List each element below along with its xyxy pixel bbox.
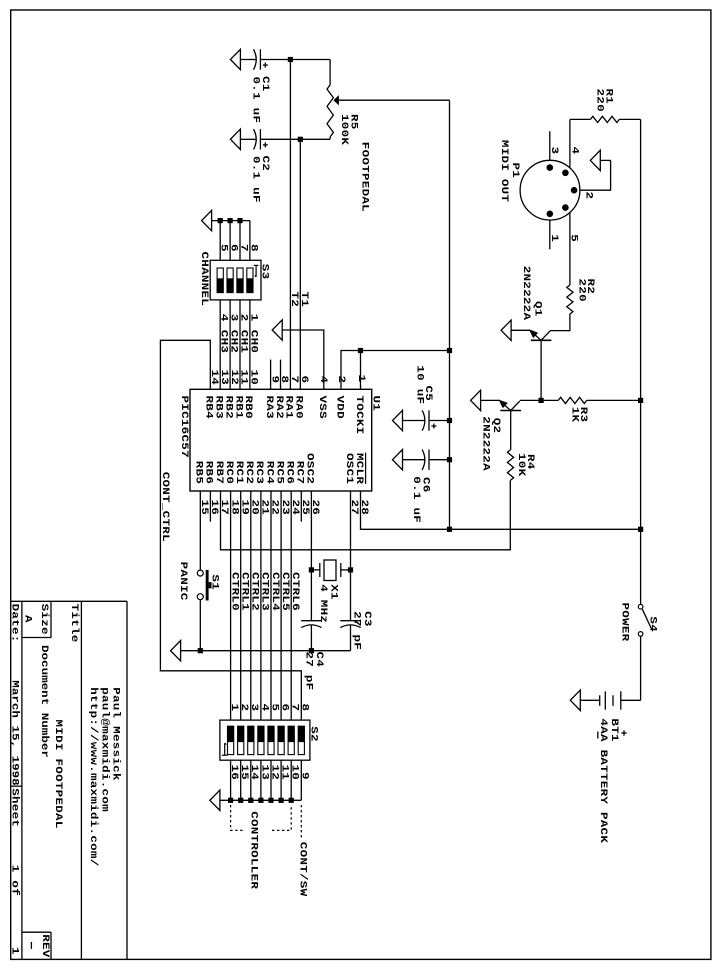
node C4 ground junction bbox=[309, 648, 314, 653]
svg-text:100K: 100K bbox=[338, 114, 350, 145]
wire CONTROLLER bracket (dashed) bbox=[231, 805, 292, 830]
wire R2 to Q1 collector bbox=[550, 314, 570, 331]
wire U1 pin 9 stub bbox=[270, 360, 272, 390]
node X1 left junction bbox=[309, 567, 314, 572]
label S2 bbox=[308, 726, 320, 742]
label CONTROLLER bbox=[248, 811, 260, 889]
svg-text:POWER: POWER bbox=[619, 603, 631, 642]
wire S4 to battery bbox=[621, 636, 641, 700]
svg-text:Date:: Date: bbox=[9, 604, 21, 643]
connector P1 MIDI OUT (DIN-5) bbox=[520, 160, 580, 220]
svg-text:S1: S1 bbox=[209, 574, 221, 590]
wire S2 bottom pins bbox=[231, 760, 302, 800]
node MCLR/right rail junction bbox=[638, 527, 643, 532]
svg-text:10: 10 bbox=[248, 370, 260, 386]
svg-text:4AA BATTERY PACK: 4AA BATTERY PACK bbox=[598, 718, 610, 843]
svg-text:REV: REV bbox=[39, 934, 51, 957]
title block text: A bbox=[22, 615, 34, 623]
svg-text:Q2: Q2 bbox=[490, 418, 502, 434]
wire RB7 net (U1 pin17 to R4) bbox=[221, 480, 511, 550]
svg-text:RB0: RB0 bbox=[243, 396, 255, 419]
label U1 bbox=[370, 396, 382, 412]
svg-text:PIC16C57: PIC16C57 bbox=[178, 396, 190, 458]
node T1 label bbox=[299, 292, 311, 308]
svg-text:5: 5 bbox=[568, 234, 580, 242]
svg-text:2N2222A: 2N2222A bbox=[520, 266, 532, 321]
wire S1 to ground rail bbox=[199, 600, 201, 651]
svg-text:Q1: Q1 bbox=[532, 301, 544, 317]
svg-text:2: 2 bbox=[583, 192, 595, 200]
wire DIN pin 2 to ground bbox=[580, 160, 611, 190]
label CONT/SW bbox=[297, 842, 309, 897]
svg-text:4: 4 bbox=[317, 376, 329, 384]
svg-text:X1: X1 bbox=[328, 584, 340, 600]
svg-text:CHANNEL: CHANNEL bbox=[198, 252, 210, 307]
svg-text:8: 8 bbox=[299, 704, 311, 712]
wire C2 to R5 bottom bbox=[260, 138, 330, 140]
capacitor C2 bbox=[240, 129, 271, 203]
ground (S2) bbox=[210, 790, 220, 810]
wire ground rail S1/C4/C3 bbox=[181, 650, 351, 652]
wire DIN pin 5 to R2 bbox=[569, 212, 571, 285]
ground (DIN pin 2) bbox=[590, 150, 600, 170]
potentiometer R5 100K bbox=[327, 60, 360, 146]
wire C1 to R5 top bbox=[260, 59, 330, 61]
wire VDD/TOCKI to +V rail bbox=[341, 351, 450, 390]
wire right rail (R1 down to S4) bbox=[640, 119, 642, 604]
wire T2 net (C1 to U1 pin 7) bbox=[289, 60, 291, 390]
pin numbers S3 1-4 bbox=[218, 314, 259, 322]
title block text: Date: bbox=[9, 604, 21, 643]
svg-text:A: A bbox=[22, 615, 34, 623]
node X1 right junction bbox=[348, 567, 353, 572]
svg-text:VSS: VSS bbox=[317, 396, 329, 419]
svg-text:4 MHz: 4 MHz bbox=[317, 584, 329, 623]
wire R1 to right rail bbox=[619, 118, 640, 120]
svg-text:S2: S2 bbox=[308, 726, 320, 742]
svg-text:CONT/SW: CONT/SW bbox=[297, 842, 309, 897]
pin numbers S2 bottom 16-9 bbox=[228, 765, 310, 781]
pin numbers S2 top 1-8 bbox=[228, 704, 310, 712]
pin number 5 bbox=[568, 234, 580, 242]
svg-text:MIDI FOOTPEDAL: MIDI FOOTPEDAL bbox=[52, 720, 64, 829]
wire U1 pin 25 stub bbox=[300, 491, 302, 522]
svg-text:10 uF: 10 uF bbox=[414, 365, 426, 404]
svg-text:220: 220 bbox=[594, 89, 606, 112]
node MCLR/+V rail junction bbox=[447, 527, 452, 532]
svg-text:27 pF: 27 pF bbox=[351, 611, 363, 650]
title block text: Paul Messick bbox=[110, 687, 122, 781]
wire S2 ground rail bbox=[220, 799, 301, 801]
wire R5 wiper to +V rail bbox=[339, 100, 450, 350]
title block text: MIDI FOOTPEDAL bbox=[52, 720, 64, 829]
transistor Q2 2N2222A bbox=[480, 400, 541, 470]
title block text: paul@maxmidi.com bbox=[99, 687, 111, 812]
node S3 rail junctions bbox=[218, 218, 243, 223]
wire CONT/SW bracket (dashed) bbox=[300, 805, 302, 838]
svg-text:3: 3 bbox=[548, 147, 560, 155]
wire T1 net (C2 to U1 pin 6) bbox=[299, 139, 301, 389]
resistor R3 1K bbox=[541, 397, 641, 422]
svg-text:MIDI OUT: MIDI OUT bbox=[498, 140, 510, 202]
wire +V rail down bbox=[449, 351, 451, 530]
svg-text:Paul Messick: Paul Messick bbox=[110, 687, 122, 781]
capacitor C1 bbox=[240, 49, 271, 123]
pin numbers U1 bottom row bbox=[198, 500, 370, 516]
wire Q1 base down to node bbox=[540, 340, 542, 400]
title block text: Title bbox=[68, 604, 80, 643]
ground (C6) bbox=[393, 450, 403, 470]
svg-text:RA0: RA0 bbox=[293, 396, 305, 419]
svg-text:2N2222A: 2N2222A bbox=[480, 416, 492, 471]
node S2 rail junctions bbox=[228, 798, 294, 803]
title block text: rev dash bbox=[30, 942, 32, 949]
crystal X1 4MHz bbox=[311, 560, 350, 623]
svg-text:C3: C3 bbox=[361, 611, 373, 627]
net label CONT_CTRL bbox=[159, 472, 171, 542]
switch S3 (DIP) body bbox=[210, 260, 261, 300]
pin number 3 bbox=[548, 147, 560, 155]
svg-text:6: 6 bbox=[298, 376, 310, 384]
svg-text:1: 1 bbox=[548, 234, 560, 242]
title block text: Document Number bbox=[38, 645, 50, 758]
node C2/T1 junction bbox=[298, 137, 303, 142]
pin names U1 top row bbox=[203, 396, 365, 435]
svg-text:FOOTPEDAL: FOOTPEDAL bbox=[359, 142, 371, 212]
node S1 ground junction bbox=[198, 648, 203, 653]
MCLR overbar bbox=[365, 453, 367, 485]
svg-text:S4: S4 bbox=[647, 616, 659, 632]
svg-text:P1: P1 bbox=[509, 163, 521, 179]
svg-text:U1: U1 bbox=[370, 396, 382, 412]
svg-text:paul@maxmidi.com: paul@maxmidi.com bbox=[99, 687, 111, 812]
svg-text:CH0: CH0 bbox=[248, 330, 260, 353]
resistor R2 220 bbox=[567, 279, 596, 315]
svg-text:1: 1 bbox=[355, 375, 367, 383]
op-amp U1 PIC16C57 body bbox=[190, 389, 372, 491]
svg-text:BT1: BT1 bbox=[608, 718, 620, 741]
capacitor C3 27pF bbox=[340, 611, 373, 651]
net labels CTRL0-CTRL6 bbox=[229, 572, 301, 611]
wire OSC2 net (U1 pin26 down) bbox=[310, 491, 312, 621]
wire S3 bottom pins to U1 bbox=[220, 300, 250, 389]
svg-text:http://www.maxmidi.com/: http://www.maxmidi.com/ bbox=[88, 687, 100, 866]
pin names U1 bottom row bbox=[193, 453, 365, 484]
node Q1 base / Q2 collector / R3 bbox=[539, 398, 544, 403]
title block text: http://www.maxmidi.com/ bbox=[88, 687, 100, 866]
svg-text:0.1 uF: 0.1 uF bbox=[250, 77, 262, 124]
label FOOTPEDAL bbox=[359, 142, 371, 212]
svg-text:0.1 uF: 0.1 uF bbox=[250, 156, 262, 203]
svg-text:TOCKI: TOCKI bbox=[353, 396, 365, 435]
label PANIC bbox=[177, 562, 189, 601]
wire DIN pin 4 to R1 bbox=[570, 119, 591, 168]
title block bbox=[11, 601, 127, 959]
wire U1 pin15 to S1 bbox=[199, 491, 201, 570]
svg-text:VDD: VDD bbox=[334, 396, 346, 419]
ground (Q2 emitter) bbox=[471, 390, 481, 410]
switch S1 PANIC pushbutton bbox=[197, 570, 220, 601]
wire CONT_CTRL net (U1 pin14 to S2 pin8) bbox=[160, 340, 301, 720]
svg-text:10K: 10K bbox=[515, 453, 527, 476]
wire OSC1 net (U1 pin27 down) bbox=[350, 491, 352, 621]
node +V rail / wiper junction bbox=[447, 348, 452, 353]
wire DIN pin 3 stub bbox=[549, 131, 551, 161]
svg-text:March 15, 1998: March 15, 1998 bbox=[9, 680, 21, 786]
svg-text:1: 1 bbox=[9, 947, 21, 955]
capacitor C6 0.1uF bbox=[403, 450, 450, 524]
title block text: Size bbox=[38, 604, 50, 635]
svg-text:0.1 uF: 0.1 uF bbox=[410, 476, 422, 523]
ground (U1 pin 4 VSS) bbox=[272, 320, 282, 340]
node TOCKI junction bbox=[358, 348, 363, 353]
label PIC16C57 bbox=[178, 396, 190, 458]
pin number 4 bbox=[569, 147, 581, 155]
node C1/T2 junction bbox=[288, 57, 293, 62]
net labels CH0-CH3 bbox=[218, 330, 259, 353]
svg-text:220: 220 bbox=[576, 279, 588, 302]
capacitor C5 10uF bbox=[403, 365, 450, 430]
svg-text:1 of: 1 of bbox=[9, 865, 21, 896]
title block text: sheet total 1 bbox=[9, 947, 21, 955]
title block text: March 15, 1998 bbox=[9, 680, 21, 786]
switch S4 POWER bbox=[619, 603, 659, 642]
title block text: Sheet bbox=[9, 788, 21, 827]
node C5 junction bbox=[447, 418, 452, 423]
wire MCLR net (U1 pin28 to power rail) bbox=[361, 491, 641, 529]
svg-text:OSC2: OSC2 bbox=[304, 453, 316, 484]
pin numbers S3 5-8 bbox=[218, 244, 259, 252]
ground (C2) bbox=[230, 129, 240, 149]
svg-text:4: 4 bbox=[569, 147, 581, 155]
svg-text:Size: Size bbox=[38, 604, 50, 635]
ground (C5) bbox=[393, 410, 403, 430]
transistor Q1 2N2222A bbox=[511, 266, 551, 341]
svg-text:Title: Title bbox=[68, 604, 80, 643]
svg-text:9: 9 bbox=[299, 772, 311, 780]
wire U1 pin 16 stub bbox=[209, 491, 211, 522]
svg-text:CTRL6: CTRL6 bbox=[289, 572, 301, 611]
node C6 junction bbox=[447, 457, 452, 462]
ground (S1/C4 rail) bbox=[171, 641, 181, 661]
svg-text:Document Number: Document Number bbox=[38, 645, 50, 758]
battery BT1 4AA bbox=[580, 691, 626, 843]
svg-text:MCLR: MCLR bbox=[353, 453, 365, 484]
node R3 / right rail junction bbox=[638, 398, 643, 403]
title block text: REV bbox=[39, 934, 51, 957]
wire U1 pin 8 stub bbox=[280, 360, 282, 390]
resistor R1 220 bbox=[590, 89, 619, 123]
svg-text:CONT_CTRL: CONT_CTRL bbox=[159, 472, 171, 542]
ground (Q1 emitter) bbox=[501, 320, 511, 340]
node T2 label bbox=[289, 292, 301, 308]
capacitor C4 27pF bbox=[301, 621, 325, 691]
svg-text:S3: S3 bbox=[259, 264, 271, 280]
svg-text:1: 1 bbox=[248, 314, 260, 322]
svg-text:T1: T1 bbox=[299, 292, 311, 308]
ground (C1) bbox=[230, 49, 240, 69]
pin number 1 bbox=[548, 234, 560, 242]
pin numbers U1 top row bbox=[208, 370, 367, 386]
svg-text:Sheet: Sheet bbox=[9, 788, 21, 827]
ground (S3) bbox=[202, 210, 212, 230]
label S3 bbox=[259, 264, 271, 280]
svg-text:PANIC: PANIC bbox=[177, 562, 189, 601]
svg-text:C4: C4 bbox=[313, 652, 325, 668]
svg-text:8: 8 bbox=[248, 244, 260, 252]
wire S3 ground rail bbox=[212, 220, 250, 222]
wire CTRL nets U1 pins 18-24 to S2 bbox=[231, 491, 292, 720]
title block text: 1 of bbox=[9, 865, 21, 896]
label P1 / MIDI OUT bbox=[498, 140, 521, 202]
wire U1 pin 4 to ground bbox=[282, 330, 324, 389]
svg-text:CONTROLLER: CONTROLLER bbox=[248, 811, 260, 889]
wire DIN pin 1 stub bbox=[549, 220, 551, 250]
resistor R4 10K bbox=[507, 411, 536, 481]
switch S2 (DIP) body bbox=[220, 720, 310, 760]
label CHANNEL bbox=[198, 252, 210, 307]
wire S3 top pins bbox=[220, 221, 250, 261]
ground (BT1) bbox=[570, 690, 580, 710]
svg-text:1K: 1K bbox=[569, 407, 581, 423]
pin number 2 bbox=[583, 192, 595, 200]
svg-text:27 pF: 27 pF bbox=[303, 652, 315, 691]
